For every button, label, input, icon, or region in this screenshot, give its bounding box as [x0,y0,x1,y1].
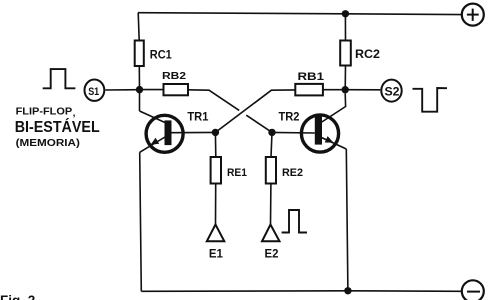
wire: top rail junction down to RC2 [344,14,346,41]
terminal E2 triangle [262,225,280,242]
svg-text:FLIP-FLOP: FLIP-FLOP [16,106,73,117]
node B1 (TR1 base junction) [212,129,219,136]
wire: TR1 emitter down to bottom rail [140,152,142,291]
wire: RE1 bottom to E1 [215,184,217,226]
waveform: inverted pulse at S2 [413,88,448,112]
svg-text:RC2: RC2 [355,47,380,61]
wire: TR1 collector diagonal [140,111,166,123]
resistor RB1 [295,84,323,96]
transistor TR2 [301,115,346,152]
wire: left rail top corner down to RC1 [138,13,139,41]
wire: TR2 emitter down to bottom rail [346,149,348,291]
node B2 (TR2 base junction) [268,129,275,136]
svg-text:TR1: TR1 [187,111,209,123]
svg-text:Fig. 2: Fig. 2 [0,293,35,300]
svg-text:RE1: RE1 [227,167,247,179]
node: bottom rail junction [344,287,351,294]
svg-text:RB1: RB1 [298,71,325,83]
waveform: trigger pulse at E2 [282,210,307,233]
power - terminal [462,280,484,300]
svg-text:E2: E2 [265,246,279,260]
wire: node A to RB2 [140,89,164,91]
wire: bottom common rail [141,290,461,293]
wire: node C to S2 [345,89,380,91]
svg-text:BI-ESTÁVEL: BI-ESTÁVEL [15,117,100,136]
resistor RB2 [164,84,189,95]
node S1 output circle [85,80,105,101]
svg-text:S1: S1 [88,86,99,98]
wire: RE2 bottom to E2 [270,184,272,226]
node: top rail junction [342,10,349,17]
node C (TR2 collector junction) [342,86,349,93]
resistor RC1 [135,41,144,67]
wire: RC1 bottom to node A [138,66,140,90]
svg-text:RC1: RC1 [150,47,172,61]
svg-text:,: , [73,108,76,119]
svg-text:E1: E1 [209,246,223,260]
transistor TR1 [140,115,183,152]
wire: cross-coupling diagonal lower segment to node B2 [246,115,272,132]
waveform: input pulse at S1 [43,69,76,88]
wire: RB1 right to node C [323,89,345,91]
power + terminal [462,4,484,26]
wire: RB1 left to cross-coupling diagonal to node B1 [215,90,295,132]
wire: node B2 down to RE2 [271,132,272,157]
resistor RE1 [211,157,221,184]
resistor RC2 [340,41,351,66]
wire: S1 to node A [105,89,139,91]
wire: node B2 to TR2 base lead [272,131,315,134]
svg-text:S2: S2 [385,84,400,98]
wire: TR2 collector diagonal up to node C [322,94,346,123]
node A (TR1 collector junction) [136,86,143,93]
wire: RC2 bottom to node C [344,66,346,90]
svg-text:RB2: RB2 [162,70,186,82]
svg-text:(MEMORIA): (MEMORIA) [16,138,80,149]
svg-text:TR2: TR2 [279,111,300,123]
wire: TR1 base lead to node B1 [172,131,216,133]
wire: node A down to TR1 collector bend [139,90,141,111]
wire: RB2 right to cross-coupling diagonal to node B2 (breaks at crossover) [188,90,239,111]
resistor RE2 [266,157,276,184]
terminal E1 triangle [207,225,225,242]
wire: node B1 down to RE1 [214,132,216,157]
node S2 output circle [381,80,401,102]
wire: top supply rail [138,13,461,15]
svg-text:RE2: RE2 [282,167,303,179]
